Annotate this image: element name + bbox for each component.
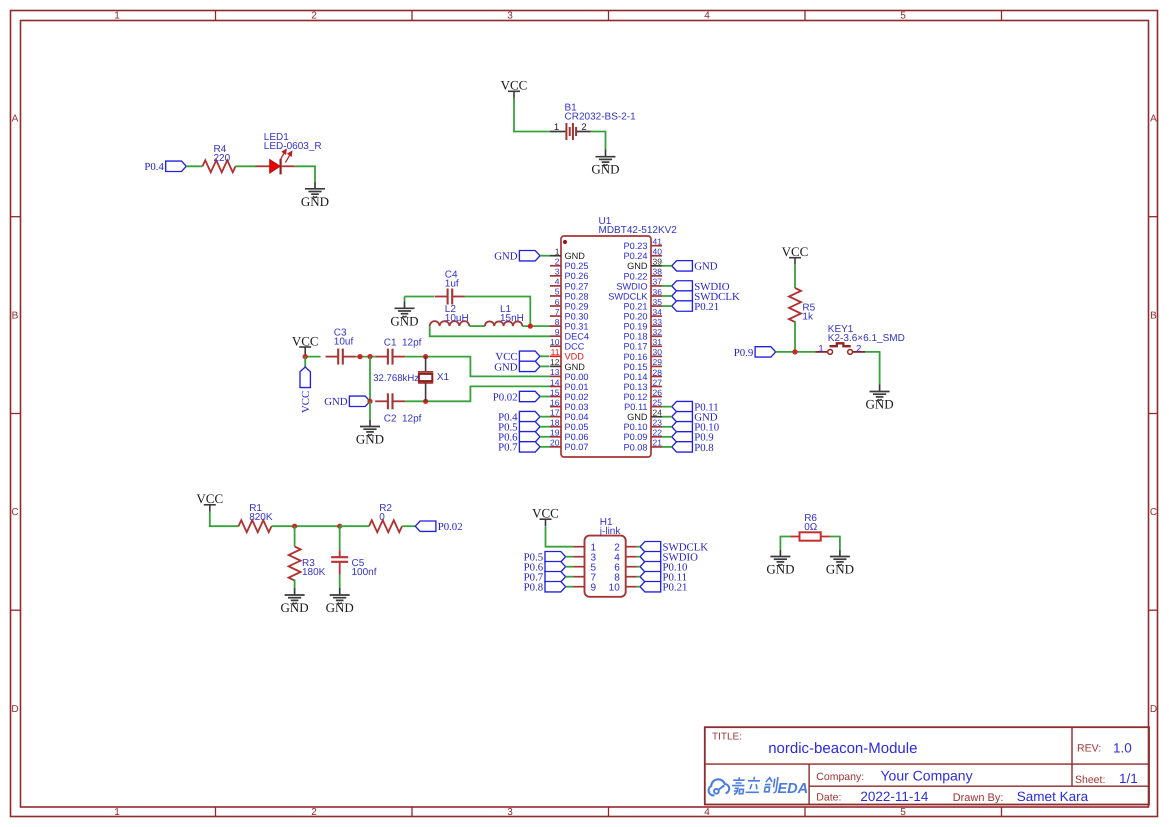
svg-text:P0.21: P0.21 bbox=[663, 582, 688, 594]
wire C5 to ground bbox=[339, 575, 341, 589]
svg-text:P0.23: P0.23 bbox=[623, 241, 647, 251]
svg-text:GND: GND bbox=[281, 600, 309, 615]
wire P0.4 port to U1 bbox=[540, 416, 550, 418]
svg-text:C1: C1 bbox=[384, 337, 397, 348]
H1 pin 7 bbox=[573, 572, 596, 583]
svg-text:36: 36 bbox=[653, 287, 663, 297]
svg-text:5: 5 bbox=[900, 10, 906, 21]
wire P0.6 port to U1 bbox=[540, 436, 550, 438]
svg-text:26: 26 bbox=[653, 387, 663, 397]
svg-text:GND: GND bbox=[627, 412, 648, 422]
U1 pin 1 (GND) bbox=[550, 247, 585, 262]
svg-text:P0.02: P0.02 bbox=[565, 392, 589, 402]
svg-text:13: 13 bbox=[550, 367, 560, 377]
wire H1 to P0.10 bbox=[637, 566, 640, 568]
U1 pin 31 (P0.17) bbox=[623, 337, 662, 352]
label C5 100nf bbox=[352, 558, 377, 578]
label L2 10uH bbox=[445, 304, 469, 324]
ground (KEY1) bbox=[866, 385, 894, 412]
U1 pin 6 (P0.29) bbox=[550, 297, 589, 312]
svg-text:4: 4 bbox=[555, 277, 560, 287]
svg-text:GND: GND bbox=[324, 396, 348, 408]
svg-text:1/1: 1/1 bbox=[1119, 771, 1138, 786]
svg-text:22: 22 bbox=[653, 428, 663, 438]
svg-text:34: 34 bbox=[653, 307, 663, 317]
svg-text:820K: 820K bbox=[249, 512, 273, 523]
U1 pin 24 (GND) bbox=[627, 408, 662, 423]
svg-text:VCC: VCC bbox=[782, 244, 809, 259]
svg-text:GND: GND bbox=[826, 562, 854, 577]
svg-text:P0.20: P0.20 bbox=[623, 312, 647, 322]
port GND (U1 pin24) bbox=[672, 412, 718, 424]
svg-text:GND: GND bbox=[766, 562, 794, 577]
port SWDCLK (U1 pin36) bbox=[672, 291, 740, 303]
wire U1 pin 36 to SWDCLK port bbox=[662, 295, 672, 297]
svg-text:28: 28 bbox=[653, 367, 663, 377]
ground (C4) bbox=[390, 302, 418, 329]
wire U1 pin 25 to P0.11 port bbox=[662, 406, 672, 408]
wire VCC junction down to port bbox=[304, 357, 306, 367]
svg-text:23: 23 bbox=[653, 418, 663, 428]
svg-text:P0.00: P0.00 bbox=[565, 372, 589, 382]
H1 pin 4 bbox=[614, 552, 637, 563]
U1 pin 18 (P0.05) bbox=[550, 418, 589, 433]
wire R3 to ground bbox=[294, 580, 296, 589]
svg-text:P0.21: P0.21 bbox=[623, 301, 647, 311]
junction GND port/C2 bbox=[367, 399, 372, 404]
U1 pin 5 (P0.28) bbox=[550, 287, 589, 302]
U1 pin 22 (P0.09) bbox=[623, 428, 662, 443]
sheet field bbox=[1075, 771, 1138, 786]
VCC power flag (crystal) bbox=[292, 333, 319, 354]
svg-text:31: 31 bbox=[653, 337, 663, 347]
port P0.21 (U1 pin35) bbox=[672, 301, 719, 313]
svg-text:X1: X1 bbox=[437, 372, 450, 383]
svg-text:P0.8: P0.8 bbox=[694, 442, 714, 454]
svg-text:SWDCLK: SWDCLK bbox=[608, 291, 648, 301]
label C4 1uf bbox=[445, 270, 459, 290]
svg-text:7: 7 bbox=[555, 307, 560, 317]
svg-text:P0.11: P0.11 bbox=[624, 402, 647, 412]
ground (R6 left) bbox=[766, 550, 794, 577]
wire U1 pin 22 to P0.9 port bbox=[662, 436, 672, 438]
svg-text:38: 38 bbox=[653, 267, 663, 277]
svg-text:SWDIO: SWDIO bbox=[616, 281, 647, 291]
U1 pin 21 (P0.08) bbox=[623, 438, 662, 453]
wire P0.8 to H1 bbox=[566, 586, 574, 588]
svg-text:B: B bbox=[12, 311, 19, 322]
U1 pin 34 (P0.20) bbox=[623, 307, 662, 322]
svg-text:P0.17: P0.17 bbox=[623, 342, 647, 352]
svg-text:P0.27: P0.27 bbox=[565, 281, 589, 291]
junction X1 top bbox=[423, 354, 428, 359]
svg-text:P0.08: P0.08 bbox=[623, 442, 647, 452]
svg-text:41: 41 bbox=[653, 237, 663, 247]
svg-text:A: A bbox=[12, 114, 19, 125]
svg-text:C2: C2 bbox=[384, 414, 397, 425]
junction C4/L1/pin8 bbox=[528, 324, 533, 329]
svg-text:P0.18: P0.18 bbox=[623, 332, 647, 342]
svg-text:1.0: 1.0 bbox=[1113, 740, 1132, 755]
svg-text:GND: GND bbox=[301, 194, 329, 209]
svg-text:P0.28: P0.28 bbox=[565, 291, 589, 301]
svg-text:Drawn By:: Drawn By: bbox=[953, 792, 1004, 804]
U1 pin 15 (P0.02) bbox=[550, 387, 589, 402]
junction R1/R3 bbox=[292, 524, 297, 529]
svg-text:25: 25 bbox=[653, 397, 663, 407]
VCC power flag (divider) bbox=[196, 491, 223, 512]
svg-text:2: 2 bbox=[856, 343, 861, 354]
U1 pin 10 (DCC) bbox=[550, 337, 585, 352]
svg-text:14: 14 bbox=[550, 377, 560, 387]
port P0.10 (H1) bbox=[640, 562, 687, 574]
svg-text:12pf: 12pf bbox=[402, 337, 422, 348]
crystal X1 bbox=[418, 357, 433, 402]
svg-text:2: 2 bbox=[555, 257, 560, 267]
port P0.4 (LED) bbox=[144, 161, 186, 173]
svg-text:VCC: VCC bbox=[532, 506, 559, 521]
U1 pin 8 (P0.31) bbox=[550, 317, 589, 332]
ground (R3) bbox=[281, 588, 309, 615]
svg-text:A: A bbox=[1150, 114, 1157, 125]
svg-text:P0.03: P0.03 bbox=[565, 402, 589, 412]
wire U1 pin 37 to SWDIO port bbox=[662, 285, 672, 287]
port P0.7 (U1) bbox=[498, 442, 540, 454]
U1 pin 30 (P0.16) bbox=[623, 347, 662, 362]
U1 pin 11 (VDD) bbox=[550, 347, 584, 362]
svg-text:2: 2 bbox=[311, 10, 317, 21]
svg-text:P0.07: P0.07 bbox=[565, 442, 589, 452]
wire VCC port to U1 pin 11 bbox=[540, 355, 550, 357]
VCC power flag (R5) bbox=[782, 244, 809, 265]
svg-text:GND: GND bbox=[494, 361, 518, 373]
svg-text:40: 40 bbox=[653, 247, 663, 257]
U1 pin 25 (P0.11) bbox=[624, 397, 662, 412]
svg-text:MDBT42-512KV2: MDBT42-512KV2 bbox=[599, 225, 678, 236]
svg-text:3: 3 bbox=[507, 807, 513, 818]
VCC power flag (H1) bbox=[532, 506, 559, 527]
LED LED1 bbox=[256, 150, 295, 175]
svg-text:39: 39 bbox=[653, 257, 663, 267]
svg-text:P0.22: P0.22 bbox=[623, 271, 647, 281]
U1 pin 28 (P0.14) bbox=[623, 367, 662, 382]
svg-text:20: 20 bbox=[550, 438, 560, 448]
port GND (U1 pin12) bbox=[494, 361, 540, 373]
svg-text:19: 19 bbox=[550, 428, 560, 438]
svg-text:VDD: VDD bbox=[565, 352, 585, 362]
svg-text:Your Company: Your Company bbox=[881, 768, 973, 784]
svg-text:P0.05: P0.05 bbox=[565, 422, 589, 432]
resistor R2 bbox=[369, 520, 402, 532]
svg-text:Sheet:: Sheet: bbox=[1075, 774, 1105, 786]
wire R2 to P0.02 port bbox=[402, 525, 415, 527]
port P0.11 (H1) bbox=[640, 572, 687, 584]
U1 pin 9 (DEC4) bbox=[550, 327, 589, 342]
wire P0.7 to H1 bbox=[566, 576, 574, 578]
U1 pin 13 (P0.00) bbox=[550, 367, 589, 382]
U1 pin 37 (SWDIO) bbox=[616, 277, 662, 292]
svg-text:D: D bbox=[1150, 704, 1157, 715]
label L1 15nH bbox=[500, 304, 524, 324]
wire U1 pin 23 to P0.10 port bbox=[662, 426, 672, 428]
wire R5 to key node bbox=[794, 321, 796, 352]
svg-text:1: 1 bbox=[818, 343, 823, 354]
svg-text:1: 1 bbox=[555, 247, 560, 257]
svg-text:CR2032-BS-2-1: CR2032-BS-2-1 bbox=[565, 112, 637, 123]
port P0.9 (U1 pin22) bbox=[672, 432, 714, 444]
svg-text:33: 33 bbox=[653, 317, 663, 327]
svg-text:9: 9 bbox=[555, 327, 560, 337]
svg-text:C: C bbox=[1150, 507, 1157, 518]
resistor R1 bbox=[239, 520, 272, 532]
svg-text:10uH: 10uH bbox=[445, 313, 469, 324]
U1 pin 12 (GND) bbox=[550, 357, 585, 372]
svg-text:GND: GND bbox=[694, 261, 718, 273]
U1 pin 26 (P0.12) bbox=[623, 387, 662, 402]
wire VCC to C3 bbox=[305, 354, 320, 357]
svg-text:Samet Kara: Samet Kara bbox=[1017, 789, 1089, 804]
port VCC (U1 pin11) bbox=[495, 351, 540, 363]
EasyEDA logo bbox=[709, 777, 809, 797]
H1 pin 9 bbox=[573, 582, 596, 593]
wire C2 to U1 pin 14 bbox=[405, 386, 550, 401]
svg-text:180K: 180K bbox=[302, 567, 326, 578]
svg-text:GND: GND bbox=[565, 251, 586, 261]
port P0.6 (H1) bbox=[524, 562, 566, 574]
svg-text:LED-0603_R: LED-0603_R bbox=[264, 141, 322, 152]
svg-text:15nH: 15nH bbox=[500, 313, 524, 324]
label H1 j-link bbox=[599, 517, 622, 537]
svg-text:P0.4: P0.4 bbox=[144, 161, 164, 173]
wire VCC to R5 bbox=[794, 265, 796, 288]
wire P0.5 port to U1 bbox=[540, 426, 550, 428]
port GND (U1 pin1) bbox=[494, 251, 540, 263]
svg-text:j-link: j-link bbox=[599, 526, 622, 537]
port SWDCLK (H1) bbox=[640, 542, 708, 554]
wire H1 to SWDIO bbox=[637, 556, 640, 558]
svg-text:3: 3 bbox=[507, 10, 513, 21]
ground (battery) bbox=[591, 150, 619, 177]
port P0.11 (U1 pin25) bbox=[672, 401, 719, 413]
wire LED1 to ground bbox=[295, 166, 315, 182]
wire U1 pin 35 to P0.21 port bbox=[662, 305, 672, 307]
svg-text:P0.10: P0.10 bbox=[623, 422, 647, 432]
U1 pin 16 (P0.03) bbox=[550, 397, 589, 412]
wire P0.6 to H1 bbox=[566, 566, 574, 568]
svg-text:D: D bbox=[11, 704, 18, 715]
label R3 180K bbox=[302, 558, 326, 578]
wire H1 to P0.21 bbox=[637, 586, 640, 588]
wire L2 to U1 pin 9 (DEC4) bbox=[430, 326, 550, 336]
wire node to R2 bbox=[340, 525, 369, 527]
port VCC (vertical) bbox=[300, 367, 312, 413]
wire L2 to L1 bbox=[469, 325, 485, 327]
connector H1 j-link body bbox=[585, 536, 626, 597]
ground (LED1) bbox=[301, 182, 329, 209]
svg-text:10uf: 10uf bbox=[334, 337, 354, 348]
svg-text:1: 1 bbox=[554, 122, 559, 133]
svg-text:P0.8: P0.8 bbox=[524, 582, 544, 594]
U1 pin 14 (P0.01) bbox=[550, 377, 589, 392]
H1 pin 6 bbox=[614, 562, 637, 573]
svg-text:GND: GND bbox=[591, 162, 619, 177]
wire H1 to SWDCLK bbox=[637, 546, 640, 548]
svg-text:11: 11 bbox=[551, 347, 560, 357]
capacitor C1 bbox=[375, 349, 405, 365]
label C1 12pf bbox=[384, 337, 422, 348]
svg-text:0Ω: 0Ω bbox=[804, 522, 818, 533]
label B1 CR2032-BS-2-1 bbox=[565, 103, 637, 123]
wire P0.9 to KEY1 bbox=[776, 351, 816, 353]
svg-text:K2-3.6×6.1_SMD: K2-3.6×6.1_SMD bbox=[828, 333, 905, 344]
wire VCC to H1 pin 1 bbox=[546, 526, 574, 547]
svg-text:GND: GND bbox=[866, 397, 894, 412]
port SWDIO (U1 pin37) bbox=[672, 281, 730, 293]
U1 pin 40 (P0.24) bbox=[623, 247, 662, 262]
svg-text:17: 17 bbox=[550, 407, 560, 417]
wire C2 row to ground bbox=[369, 401, 371, 420]
wire GND port to U1 pin 12 bbox=[540, 365, 550, 367]
svg-text:P0.24: P0.24 bbox=[623, 251, 647, 261]
svg-text:DEC4: DEC4 bbox=[565, 332, 590, 342]
svg-text:P0.13: P0.13 bbox=[623, 382, 647, 392]
svg-text:GND: GND bbox=[627, 261, 648, 271]
svg-text:16: 16 bbox=[550, 397, 560, 407]
U1 pin 41 (P0.23) bbox=[623, 237, 662, 252]
U1 pin 32 (P0.18) bbox=[623, 327, 662, 342]
wire ground to C4 bbox=[405, 296, 435, 298]
svg-text:6: 6 bbox=[555, 297, 560, 307]
wire C4 to L1 junction bbox=[465, 297, 530, 327]
junction R2/C5 bbox=[337, 524, 342, 529]
svg-text:Company:: Company: bbox=[816, 771, 864, 783]
port P0.5 (U1) bbox=[498, 422, 540, 434]
svg-text:5: 5 bbox=[555, 287, 560, 297]
wire L1 to U1 pin 8 bbox=[522, 325, 550, 327]
rev field bbox=[1077, 740, 1132, 755]
battery B1 bbox=[550, 123, 591, 140]
wire branch down to C2 row bbox=[369, 357, 371, 402]
wire U1 pin 21 to P0.8 port bbox=[662, 446, 672, 448]
wire GND port to U1 pin 1 bbox=[540, 255, 550, 257]
U1 pin 3 (P0.26) bbox=[550, 267, 589, 282]
U1 pin 17 (P0.04) bbox=[550, 407, 589, 422]
U1 pin 4 (P0.27) bbox=[550, 277, 589, 292]
wire node down to C5 bbox=[339, 526, 341, 550]
svg-text:24: 24 bbox=[653, 408, 663, 418]
svg-text:P0.29: P0.29 bbox=[565, 301, 589, 311]
H1 pin 2 bbox=[614, 542, 637, 553]
svg-text:3: 3 bbox=[555, 267, 560, 277]
port P0.9 (KEY1) bbox=[734, 347, 776, 359]
VCC power flag (battery) bbox=[501, 78, 528, 99]
wire C1 to U1 pin 13 bbox=[405, 357, 550, 377]
port P0.8 (U1 pin21) bbox=[672, 442, 714, 454]
label LED1 LED-0603_R bbox=[264, 132, 322, 152]
wire P0.5 to H1 bbox=[566, 556, 574, 558]
svg-text:30: 30 bbox=[653, 347, 663, 357]
label R6 0ohm bbox=[804, 513, 818, 533]
title text bbox=[712, 732, 917, 757]
port P0.5 (H1) bbox=[524, 552, 566, 564]
resistor R4 bbox=[203, 160, 236, 172]
wire B1 pin 2 to ground bbox=[591, 132, 606, 150]
svg-text:P0.26: P0.26 bbox=[565, 271, 589, 281]
wire KEY1 to ground bbox=[865, 352, 880, 385]
svg-text:P0.12: P0.12 bbox=[623, 392, 647, 402]
svg-text:12pf: 12pf bbox=[402, 414, 422, 425]
junction C3 right bbox=[357, 354, 362, 359]
wire node down to R3 bbox=[294, 526, 296, 546]
svg-text:P0.9: P0.9 bbox=[734, 347, 754, 359]
svg-text:P0.06: P0.06 bbox=[565, 432, 589, 442]
inductor L2 bbox=[430, 321, 470, 326]
svg-text:GND: GND bbox=[565, 362, 586, 372]
wire R6 to right ground bbox=[830, 537, 840, 550]
wire U1 pin 24 to GND port bbox=[662, 416, 672, 418]
resistor R6 bbox=[790, 532, 830, 540]
svg-text:2: 2 bbox=[581, 122, 586, 133]
wire VCC to B1 pin 1 bbox=[514, 98, 550, 132]
H1 pin 3 bbox=[573, 552, 596, 563]
H1 pin 10 bbox=[609, 582, 637, 593]
ground (C5) bbox=[326, 588, 354, 615]
U1 pin 38 (P0.22) bbox=[623, 267, 662, 282]
wire U1 pin 39 to GND port bbox=[662, 265, 672, 267]
wire C4 corner down bbox=[404, 297, 406, 302]
capacitor C5 bbox=[331, 550, 348, 574]
svg-text:P0.15: P0.15 bbox=[623, 362, 647, 372]
U1 pin 39 (GND) bbox=[627, 257, 662, 272]
junction VCC/C3/port bbox=[303, 354, 308, 359]
junction X1 bottom bbox=[423, 399, 428, 404]
H1 pin 8 bbox=[614, 572, 637, 583]
wire R6 to left ground bbox=[780, 537, 790, 550]
wire P0.7 port to U1 bbox=[540, 446, 550, 448]
svg-text:0: 0 bbox=[379, 512, 385, 523]
label R1 820K bbox=[249, 503, 273, 523]
svg-text:1k: 1k bbox=[802, 311, 814, 322]
U1 pin 19 (P0.06) bbox=[550, 428, 589, 443]
push button KEY1 bbox=[815, 343, 865, 354]
junction vertical branch bbox=[367, 354, 372, 359]
svg-text:18: 18 bbox=[550, 418, 560, 428]
wire R1 to R2 node bbox=[272, 525, 340, 527]
svg-text:10: 10 bbox=[550, 337, 560, 347]
H1 pin 5 bbox=[573, 562, 596, 573]
svg-text:nordic-beacon-Module: nordic-beacon-Module bbox=[768, 740, 917, 757]
wire H1 to P0.11 bbox=[637, 576, 640, 578]
svg-text:9: 9 bbox=[591, 582, 597, 593]
svg-text:GND: GND bbox=[356, 432, 384, 447]
company field bbox=[816, 768, 972, 784]
wire VCC to R1 bbox=[210, 512, 239, 526]
svg-text:C: C bbox=[11, 507, 18, 518]
port P0.02 (divider) bbox=[415, 521, 462, 533]
port P0.6 (U1) bbox=[498, 432, 540, 444]
svg-text:REV:: REV: bbox=[1077, 743, 1101, 755]
svg-text:12: 12 bbox=[550, 357, 560, 367]
svg-text:VCC: VCC bbox=[292, 333, 319, 348]
svg-text:GND: GND bbox=[326, 600, 354, 615]
svg-text:15: 15 bbox=[550, 387, 560, 397]
U1 pin 35 (P0.21) bbox=[623, 297, 662, 312]
svg-text:DCC: DCC bbox=[565, 342, 585, 352]
port GND (U1 pin39) bbox=[672, 261, 718, 273]
date field bbox=[816, 789, 1088, 804]
H1 pin 1 bbox=[573, 542, 596, 553]
label U1 MDBT42-512KV2 bbox=[599, 216, 678, 236]
